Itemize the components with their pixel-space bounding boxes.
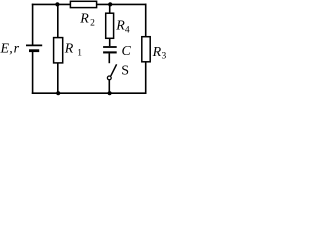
wire R1 top lead — [57, 4, 59, 37]
resistor R4 box — [106, 13, 114, 38]
switch S blade — [111, 64, 117, 76]
wire right rail lower (R3 bottom lead) — [145, 62, 147, 94]
wire R4 top lead — [109, 4, 111, 13]
wire R1 bottom lead — [57, 63, 59, 93]
capacitor C top plate — [103, 46, 117, 48]
wire top rail — [32, 3, 147, 5]
node junction dot top left — [55, 2, 59, 6]
battery E,r short thick plate — [29, 49, 39, 52]
svg-text:4: 4 — [125, 25, 130, 35]
wire left rail lower (battery bottom lead) — [32, 51, 34, 94]
resistor R1 box — [54, 38, 63, 63]
svg-text:S: S — [121, 64, 129, 79]
svg-text:E: E — [0, 41, 10, 56]
svg-text:C: C — [122, 44, 132, 59]
svg-text:2: 2 — [90, 18, 95, 28]
capacitor C bottom plate — [103, 51, 117, 53]
wire right rail upper (R3 top lead) — [145, 4, 147, 37]
svg-text:,: , — [9, 41, 13, 56]
wire switch to bottom rail — [108, 80, 110, 93]
svg-text:R: R — [115, 19, 125, 34]
svg-text:R: R — [152, 45, 162, 60]
svg-text:R: R — [79, 12, 89, 27]
node junction dot top right — [108, 2, 112, 6]
svg-text:1: 1 — [77, 48, 82, 58]
svg-text:r: r — [14, 41, 20, 56]
wire bottom rail — [32, 92, 147, 94]
wire capacitor to switch fixed contact — [108, 53, 110, 63]
resistor R3 box — [142, 37, 150, 62]
wire R4 to capacitor — [109, 38, 111, 46]
node junction dot bottom left — [56, 91, 60, 95]
node junction dot bottom right — [108, 91, 112, 95]
battery E,r long plate — [26, 44, 42, 46]
svg-text:R: R — [64, 42, 74, 57]
wire left rail upper (battery top lead) — [32, 4, 34, 46]
resistor R2 box — [70, 1, 96, 7]
svg-text:3: 3 — [162, 52, 167, 62]
switch S pivot circle — [107, 76, 111, 80]
